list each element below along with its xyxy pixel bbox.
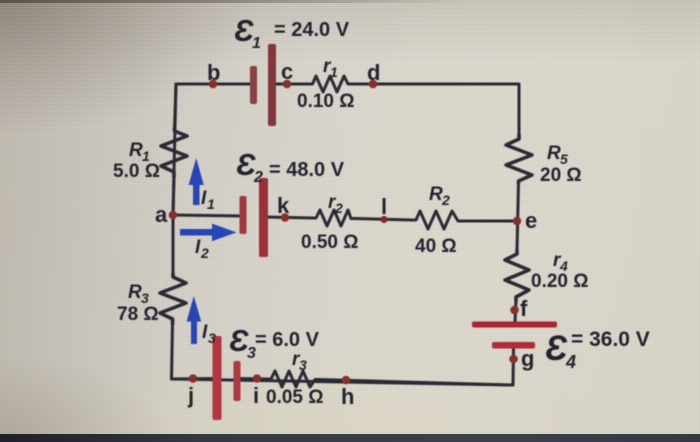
- wire R5 to r4: [517, 183, 519, 250]
- svg-text:h: h: [341, 384, 354, 409]
- svg-text:78 Ω: 78 Ω: [117, 304, 159, 325]
- svg-text:0.05 Ω: 0.05 Ω: [266, 387, 324, 408]
- label E3 = 6.0 V: [229, 323, 320, 362]
- wire R1 to top-left corner: [175, 84, 177, 128]
- wire R3 up to node a: [172, 215, 175, 274]
- resistor R1: [161, 128, 187, 177]
- svg-text:i: i: [253, 383, 259, 408]
- wire E4 to node g and bottom-right corner: [172, 348, 514, 385]
- label I1: [201, 188, 215, 212]
- label E4 = 36.0 V: [545, 328, 650, 372]
- node i: [253, 374, 262, 383]
- svg-text:R: R: [129, 140, 143, 161]
- svg-text:f: f: [520, 296, 528, 321]
- svg-text:3: 3: [299, 357, 307, 373]
- svg-text:2: 2: [200, 245, 209, 261]
- label E1 = 24.0 V: [234, 13, 350, 52]
- svg-text:1: 1: [252, 35, 261, 52]
- svg-text:l: l: [381, 194, 387, 219]
- current arrow I1: [189, 158, 204, 205]
- label I2: [195, 237, 209, 261]
- label r3 value: [292, 349, 307, 373]
- label R3 value: [117, 282, 159, 325]
- svg-text:Ɛ: Ɛ: [229, 323, 249, 358]
- svg-text:= 6.0 V: = 6.0 V: [255, 329, 320, 351]
- battery E4 plate short: [492, 342, 535, 349]
- svg-text:Ɛ: Ɛ: [236, 147, 256, 182]
- svg-text:20 Ω: 20 Ω: [540, 165, 582, 186]
- battery E4 plate long: [472, 322, 557, 328]
- node j: [189, 374, 198, 383]
- svg-text:b: b: [207, 60, 220, 85]
- node f: [510, 306, 519, 315]
- wire top-left corner to battery E1: [173, 84, 250, 215]
- wire E3 to node i and r3: [237, 377, 267, 381]
- wire E1 to r1: [272, 83, 309, 86]
- svg-text:= 24.0 V: = 24.0 V: [274, 19, 350, 41]
- node d: [369, 80, 378, 89]
- wire node a to battery E2: [173, 215, 243, 216]
- battery E2 plate short: [240, 196, 247, 234]
- label r4 value: [531, 250, 589, 292]
- wire E2 to node k and r2: [264, 217, 313, 218]
- svg-text:4: 4: [565, 352, 576, 372]
- wire r3 to node h to corner: [319, 380, 513, 386]
- battery E1 plate short (negative): [250, 66, 257, 104]
- svg-text:g: g: [521, 346, 534, 371]
- resistor R5: [506, 135, 532, 183]
- svg-text:1: 1: [330, 64, 338, 80]
- current arrow I2: [180, 224, 237, 242]
- current arrow I3: [187, 296, 202, 344]
- svg-text:c: c: [281, 59, 293, 84]
- label E2 = 48.0 V: [236, 147, 345, 186]
- svg-text:2: 2: [441, 192, 450, 208]
- svg-text:= 48.0 V: = 48.0 V: [269, 159, 345, 181]
- battery E2 plate tall: [259, 178, 268, 257]
- label r2 value: [301, 192, 359, 253]
- wire r1 to top-right corner: [352, 84, 519, 135]
- resistor r4: [505, 250, 529, 301]
- svg-text:40 Ω: 40 Ω: [415, 236, 457, 257]
- resistor R2: [412, 211, 462, 229]
- svg-text:0.20 Ω: 0.20 Ω: [531, 271, 589, 292]
- svg-text:0.10 Ω: 0.10 Ω: [297, 91, 355, 112]
- svg-text:= 36.0 V: = 36.0 V: [571, 328, 650, 351]
- wire r2 to node l to R2: [354, 219, 412, 221]
- label R1 value: [113, 140, 160, 182]
- battery E3 plate short: [234, 361, 241, 401]
- svg-text:R: R: [429, 184, 443, 205]
- svg-text:Ɛ: Ɛ: [234, 13, 254, 48]
- svg-text:a: a: [155, 202, 168, 227]
- label I3: [202, 322, 216, 346]
- battery E1 plate tall (positive): [268, 44, 276, 126]
- wire node j to battery E3: [172, 377, 217, 381]
- svg-text:e: e: [525, 208, 537, 233]
- node c: [283, 80, 292, 89]
- svg-text:1: 1: [207, 196, 215, 212]
- node k: [281, 213, 290, 222]
- svg-text:R: R: [547, 143, 561, 164]
- svg-text:j: j: [187, 383, 194, 408]
- svg-text:2: 2: [334, 200, 343, 216]
- svg-text:R: R: [128, 282, 142, 303]
- resistor R3: [160, 274, 186, 324]
- svg-text:3: 3: [208, 330, 216, 346]
- node b: [209, 80, 218, 89]
- resistor r2: [313, 210, 354, 226]
- wire bottom-left corner up to R3: [172, 324, 173, 379]
- label R2 value: [415, 184, 457, 257]
- wire R2 to node e: [462, 220, 517, 223]
- svg-text:k: k: [277, 193, 290, 218]
- node h: [342, 376, 351, 385]
- svg-text:5.0 Ω: 5.0 Ω: [113, 161, 160, 182]
- node l: [380, 216, 387, 223]
- svg-text:d: d: [367, 60, 380, 85]
- node a: [169, 211, 178, 220]
- node g: [509, 355, 518, 364]
- svg-text:0.50 Ω: 0.50 Ω: [301, 232, 359, 253]
- wire node a up to R1: [173, 177, 174, 215]
- resistor r3: [267, 371, 319, 387]
- wire r4 to node f: [515, 301, 516, 322]
- battery E3 plate tall: [213, 336, 222, 420]
- resistor r1: [309, 76, 352, 92]
- svg-text:Ɛ: Ɛ: [545, 329, 568, 368]
- label r1 value: [297, 56, 355, 112]
- label R5 value: [540, 143, 582, 186]
- node e: [513, 217, 522, 226]
- svg-text:2: 2: [253, 169, 263, 186]
